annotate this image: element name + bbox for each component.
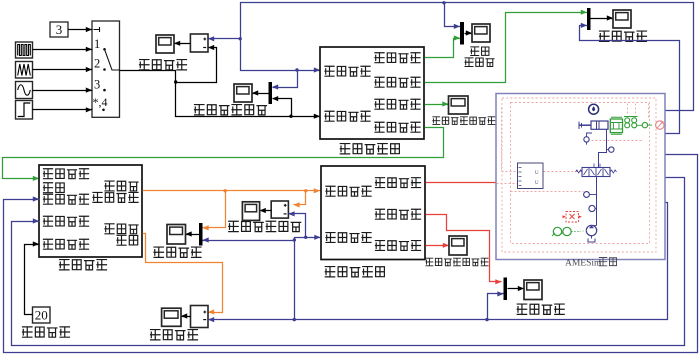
scope block pressure tracking error <box>242 202 259 221</box>
svg-text:*,4: *,4 <box>93 95 108 109</box>
dashed wire mid <box>511 191 584 193</box>
label 估计压力环干扰 <box>426 258 488 266</box>
interface block inside AMESim <box>518 163 544 189</box>
sum block pressure tracking error <box>271 201 288 218</box>
wire step source to switch port 4 <box>33 109 93 111</box>
mux pressure observation <box>504 278 508 301</box>
sensor circle on pipe <box>606 147 614 152</box>
wire estimated disturbance to scope <box>425 104 449 106</box>
junction pressure feedback to actual pressure input <box>293 318 296 321</box>
label 压力跟踪 pressure tracking <box>154 247 201 257</box>
scope block actual pressure difference <box>162 308 181 326</box>
svg-text:1: 1 <box>94 37 100 51</box>
wire velocity feedback from AMESim to velocity mux <box>580 26 680 134</box>
junction position feedback to observation mux <box>442 1 445 4</box>
wire branch to position-tracking mux lower input <box>273 99 292 117</box>
scope block estimated position loop disturbance <box>449 96 469 114</box>
label 压力指令 pressure command <box>60 260 107 270</box>
command box red with X <box>563 212 583 223</box>
mux position tracking curve <box>269 82 273 104</box>
sum block tracking error <box>190 34 208 52</box>
wire mux to velocity observation scope <box>591 18 614 20</box>
label 压力跟踪误差 pressure tracking error <box>229 221 301 231</box>
wire branch to pressure tracking mux lower input <box>203 240 295 242</box>
hydraulic cylinder <box>579 121 608 129</box>
source block sawtooth generator <box>16 62 33 79</box>
svg-text:2: 2 <box>94 57 100 71</box>
wire branch to tracking-error sum positive input <box>209 38 241 40</box>
wire estimated position to observation mux <box>425 39 461 58</box>
dashed sensor wire right <box>648 104 650 120</box>
pipe valve down <box>596 177 598 226</box>
junction position feedback to tracking-error sum <box>239 37 242 40</box>
junction desired-position branch A <box>174 80 177 83</box>
load mass block green <box>610 117 622 134</box>
wire Const3 to switch control port <box>69 29 93 31</box>
mux velocity observation <box>587 8 591 30</box>
wire branch to pressure tracking error sum positive input <box>294 191 306 205</box>
scope block estimated pressure loop disturbance <box>449 236 467 255</box>
mux position observation <box>460 22 464 45</box>
svg-text:U: U <box>535 181 539 186</box>
label 压差指令 pressure difference command <box>23 327 70 337</box>
junction branch to pressure error sum <box>304 236 307 239</box>
wire branch to position-tracking mux upper input <box>273 71 298 88</box>
dashed wire below cylinder <box>592 140 644 142</box>
small sensor circle below cylinder <box>584 133 592 145</box>
wire inlet chamber pressure to actual difference sum <box>143 234 223 313</box>
source block pulse generator <box>16 42 33 58</box>
label 跟踪误差 tracking error <box>140 60 187 70</box>
wire branch to pressure observation mux lower input <box>488 294 504 320</box>
scope block pressure tracking <box>167 225 186 245</box>
constant block Const3 value 3 <box>50 22 68 37</box>
label 压力观测 pressure observation <box>517 304 564 314</box>
scope block tracking error <box>156 35 174 53</box>
junction position feedback to tracking curve mux <box>295 68 298 71</box>
svg-text:20: 20 <box>35 308 48 323</box>
dashed sensor wire from cylinder top <box>627 104 629 115</box>
sum block actual pressure difference <box>191 306 209 328</box>
label 位置控制器 position controller <box>340 144 399 154</box>
motor pump group green <box>552 227 579 236</box>
wire tracking-error sum output to scope <box>175 43 191 45</box>
junction desired-position branch B <box>289 115 292 118</box>
sensor circles green pair 1 <box>624 117 642 128</box>
wire branch to actual pressure input of pressure controller <box>295 238 321 320</box>
junction branch to pressure tracking mux <box>293 238 296 241</box>
wire chamber A pressure feedback outer loop <box>4 155 698 353</box>
wire pressure control signal into AMESim model <box>426 182 496 184</box>
wire sine source to switch port 3 <box>33 90 93 92</box>
wire position control signal to pressure command block <box>3 128 444 179</box>
label AMESim model <box>565 258 617 269</box>
wire mux to position observation scope <box>465 33 473 35</box>
wire chamber B pressure feedback inner loop <box>12 178 685 346</box>
wire estimated disturbance to scope <box>426 245 450 247</box>
wire branch to pressure tracking error sum negative input <box>289 214 306 238</box>
multiport switch block <box>92 21 120 117</box>
sensor circle left of pipe <box>584 192 597 198</box>
mux pressure tracking <box>199 223 203 246</box>
servo valve <box>576 164 617 177</box>
scope block position tracking curve <box>234 84 252 102</box>
wire branch to tracking-error sum negative input <box>176 48 217 83</box>
wire branch to pressure tracking mux upper input <box>203 191 226 228</box>
hydraulic pump <box>586 225 596 235</box>
wire load pressure feedback to sums and controller <box>209 203 668 320</box>
water drop sensor circle <box>589 104 599 114</box>
label 位置跟踪曲线 position tracking curve <box>195 105 267 115</box>
constant block value 20 <box>33 307 51 323</box>
dashed signal wire interface to valve <box>544 171 583 173</box>
wire sawtooth source to switch port 2 <box>33 69 93 71</box>
scope block pressure observation <box>524 280 542 300</box>
block position controller 位置控制器 <box>320 47 424 139</box>
wire position feedback from AMESim to controller and sum <box>241 3 694 111</box>
wire pump outlet pressure command to pressure controller <box>143 190 321 192</box>
svg-text:3: 3 <box>56 22 63 37</box>
wire sum output to pressure tracking error scope <box>260 210 272 212</box>
junction pressure feedback to observation mux <box>485 318 488 321</box>
scope block velocity observation <box>613 10 631 28</box>
label 压力控制器 pressure controller <box>325 267 384 277</box>
sensor circle green single <box>642 122 652 127</box>
dashed boundary inner <box>511 103 650 244</box>
svg-text:3: 3 <box>94 78 100 92</box>
wire mux to position tracking scope <box>253 93 269 95</box>
dashed link to pump <box>580 231 587 232</box>
svg-text:AMESim: AMESim <box>565 259 602 269</box>
wire mux to pressure tracking scope <box>186 234 200 236</box>
label 实际压差 actual pressure difference <box>151 330 198 340</box>
wire estimated velocity to velocity observation mux <box>425 13 588 83</box>
wire estimated pressure to pressure observation mux <box>426 215 502 282</box>
wire branch to position observation mux upper input <box>445 3 461 27</box>
block AMESim model boundary <box>496 94 665 260</box>
dashed signal wire control input <box>497 183 518 185</box>
dashed signal wire to interface block pin1 <box>502 108 518 172</box>
flow component circle on pipe <box>589 205 597 211</box>
pipe cylinder to valve <box>599 130 607 168</box>
wire constant 20 to pressure command block <box>25 245 40 315</box>
block pressure command 压力指令 <box>39 165 142 257</box>
dashed boundary outer <box>502 98 656 252</box>
label 速度观测 velocity observation <box>600 31 647 41</box>
junction pump pressure command branch to tracking mux <box>224 189 227 192</box>
dashed sensor wire 2 <box>635 104 637 115</box>
pressure gauge red <box>656 121 664 129</box>
svg-text:U: U <box>535 171 539 176</box>
scope block position observation <box>472 24 490 42</box>
junction pump pressure command branch to error sum <box>304 189 307 192</box>
source block step generator <box>16 101 33 120</box>
block pressure controller 压力控制器 <box>321 166 425 260</box>
wire pulse source to switch port 1 <box>33 49 93 51</box>
source block sine wave generator <box>16 82 33 99</box>
wire mux to pressure observation scope <box>508 288 525 290</box>
wire switch output to desired-position node <box>120 71 321 117</box>
wire sum output to actual difference scope <box>182 316 191 318</box>
label 估计位置环干扰 <box>433 117 495 125</box>
tank symbol <box>588 236 595 242</box>
label 位置观测图 position observation plot <box>465 47 494 67</box>
